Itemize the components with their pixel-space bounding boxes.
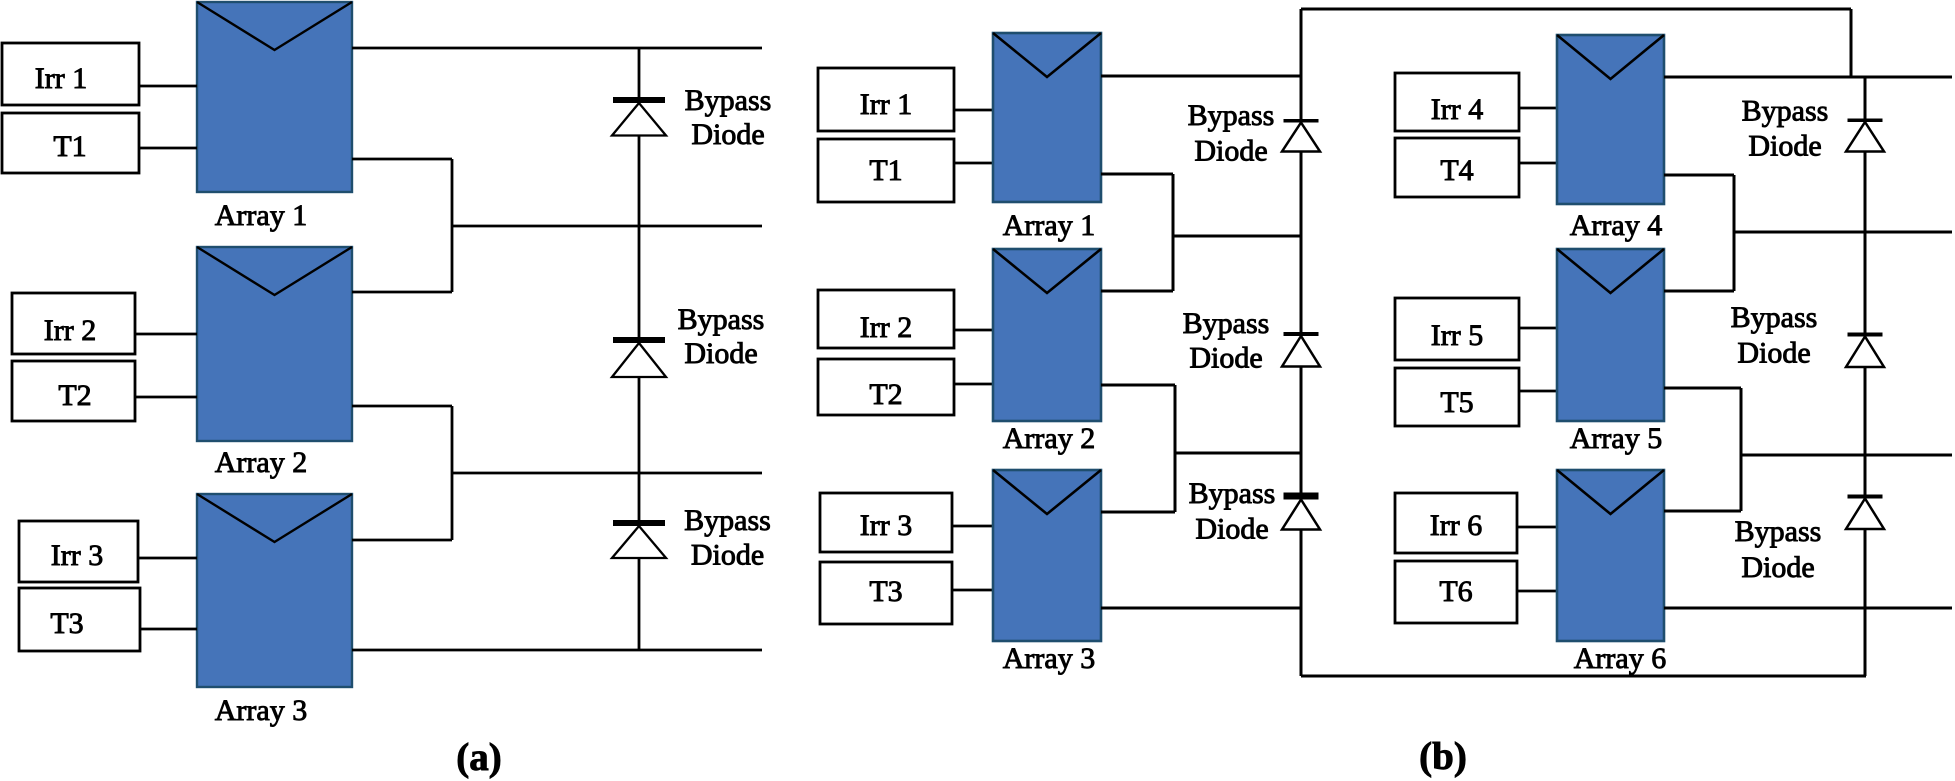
svg-text:Irr 3: Irr 3 [51, 539, 103, 572]
svg-text:T1: T1 [869, 154, 902, 187]
svg-text:Irr 3: Irr 3 [860, 509, 912, 542]
svg-text:Array 2: Array 2 [1003, 422, 1095, 455]
svg-text:Irr 4: Irr 4 [1431, 93, 1483, 126]
svg-text:Diode: Diode [1194, 134, 1267, 167]
svg-text:T4: T4 [1440, 154, 1473, 187]
svg-text:T2: T2 [869, 378, 902, 411]
svg-text:Array 1: Array 1 [215, 199, 307, 232]
svg-text:Array 3: Array 3 [1003, 642, 1095, 675]
svg-text:Bypass: Bypass [1183, 307, 1270, 340]
svg-text:Array 1: Array 1 [1003, 209, 1095, 242]
svg-text:Diode: Diode [1737, 337, 1810, 370]
svg-text:Array 4: Array 4 [1570, 209, 1662, 242]
svg-text:Array 3: Array 3 [215, 694, 307, 727]
svg-text:Irr 2: Irr 2 [44, 314, 96, 347]
svg-text:Bypass: Bypass [1742, 94, 1829, 127]
svg-text:T3: T3 [869, 575, 902, 608]
svg-text:Diode: Diode [691, 118, 764, 151]
svg-text:Diode: Diode [1189, 342, 1262, 375]
svg-text:Bypass: Bypass [684, 504, 771, 537]
svg-text:Bypass: Bypass [678, 303, 765, 336]
svg-text:Irr 1: Irr 1 [860, 88, 912, 121]
svg-text:(b): (b) [1419, 735, 1467, 778]
svg-text:Array 5: Array 5 [1570, 422, 1662, 455]
svg-text:Bypass: Bypass [1188, 99, 1275, 132]
svg-text:T3: T3 [50, 607, 83, 640]
svg-text:Diode: Diode [1195, 513, 1268, 546]
svg-text:Bypass: Bypass [1735, 515, 1822, 548]
svg-text:Bypass: Bypass [685, 84, 772, 117]
svg-text:Array 6: Array 6 [1574, 642, 1666, 675]
svg-text:Irr 2: Irr 2 [860, 311, 912, 344]
svg-text:Bypass: Bypass [1731, 301, 1818, 334]
svg-text:Diode: Diode [691, 539, 764, 572]
svg-text:(a): (a) [456, 736, 501, 779]
svg-text:T1: T1 [53, 130, 86, 163]
svg-text:T2: T2 [58, 379, 91, 412]
svg-text:Diode: Diode [684, 337, 757, 370]
svg-text:Bypass: Bypass [1189, 477, 1276, 510]
svg-text:Irr 5: Irr 5 [1431, 319, 1483, 352]
svg-text:Array 2: Array 2 [215, 446, 307, 479]
svg-text:Diode: Diode [1748, 130, 1821, 163]
svg-text:Irr 6: Irr 6 [1430, 509, 1482, 542]
svg-text:T5: T5 [1440, 386, 1473, 419]
svg-text:Diode: Diode [1741, 551, 1814, 584]
svg-text:Irr 1: Irr 1 [35, 62, 87, 95]
svg-text:T6: T6 [1439, 575, 1472, 608]
